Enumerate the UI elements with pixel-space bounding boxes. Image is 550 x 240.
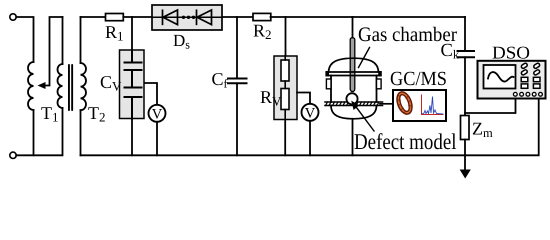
bus to DSO ground wire [465,99,539,156]
gas chamber bottom dish [331,106,377,119]
input terminal top [10,14,16,20]
wire bottom terminal bus primary side [16,108,62,155]
wire R1 to Ds [123,16,152,18]
gas chamber bottom flange [325,101,383,103]
ground arrow [460,170,471,179]
svg-text:GC/MS: GC/MS [390,68,447,90]
voltmeter V1 [149,105,166,122]
GC coil icon [394,90,415,116]
pointer line gas chamber [359,48,370,68]
Rv lower resistor [281,89,289,110]
diode 2 of Ds [197,10,212,25]
wire R2 to gas chamber [271,16,353,18]
main bottom bus [81,154,466,156]
wire Ck down [464,57,466,115]
Ds internal wire [152,16,222,18]
impedance Zm [461,116,470,140]
wire Rv bottom to bus [284,120,286,156]
Cv tap to voltmeter [145,83,158,105]
Rv tap to voltmeter [297,93,310,104]
svg-text:Defect model: Defect model [354,129,457,154]
dots of Ds [182,16,185,19]
resistor R1 [106,14,124,21]
wire top terminal to T1 top [16,17,33,62]
svg-text:V: V [152,107,163,123]
wire T2 secondary bottom to main bottom bus [80,110,82,155]
chromatogram icon [422,95,444,115]
node Cf tap [236,17,238,79]
top bus to right corner [353,16,466,18]
wire Zm to ground [464,140,466,171]
input terminal bottom [10,152,16,158]
resistor R2 [253,13,271,20]
transformer T2 primary winding [58,64,63,108]
wire Cf to bus [236,83,238,155]
DSO oscilloscope body [478,61,546,99]
gas chamber top flange [327,71,381,73]
svg-text:Gas chamber: Gas chamber [358,24,457,46]
wire chamber to GC/MS [380,103,393,105]
wire V1 to bus [156,122,158,156]
capacitor Ck [458,51,475,57]
capacitor Cf [228,79,247,84]
pointer arrow defect model [357,108,375,132]
wire T1 bottom to bus [33,110,35,155]
wiper arrowhead [38,82,46,89]
electrode rod [350,38,355,92]
diode stack Ds box [152,5,222,30]
svg-text:DSO: DSO [492,43,530,63]
resistive divider Rv box [274,56,297,120]
node Rv tap [285,17,287,56]
wiper arm wire of T1 [43,17,63,86]
node junction to DSO input [465,99,516,114]
wire wiper bus to T2 primary top [62,17,64,64]
Rv internal wires [284,56,286,120]
GC/MS box [393,90,446,121]
DSO buttons [521,63,541,89]
wire V2 to bus [309,121,311,156]
transformer T1 winding [28,62,33,110]
transformer T2 secondary winding [81,63,87,110]
right corner down to Ck [464,17,466,51]
svg-text:V: V [305,106,316,122]
DSO connector dots [513,92,542,96]
gas chamber body sides [330,76,332,103]
capacitive divider Cv box [120,50,145,119]
Cv upper capacitor [125,51,142,120]
wire T2 secondary top to main top bus [80,17,82,63]
DSO screen [484,65,516,89]
Rv upper resistor [281,60,289,81]
defect model sphere [346,93,357,104]
T2 core bars [68,64,70,111]
wire Cv bottom to bus [131,120,133,156]
gas chamber dome [329,58,379,72]
voltmeter V2 [302,104,319,121]
wire Ds to R2 [222,16,253,18]
wire chamber bottom to bus [352,119,354,156]
node Cv tap on top bus [131,17,133,51]
top bus T2 to R1 [81,16,106,18]
DSO sine trace [488,72,514,81]
diode 1 of Ds [163,10,178,25]
electrode feed wire [352,17,354,40]
gas chamber side nubs [326,79,331,89]
